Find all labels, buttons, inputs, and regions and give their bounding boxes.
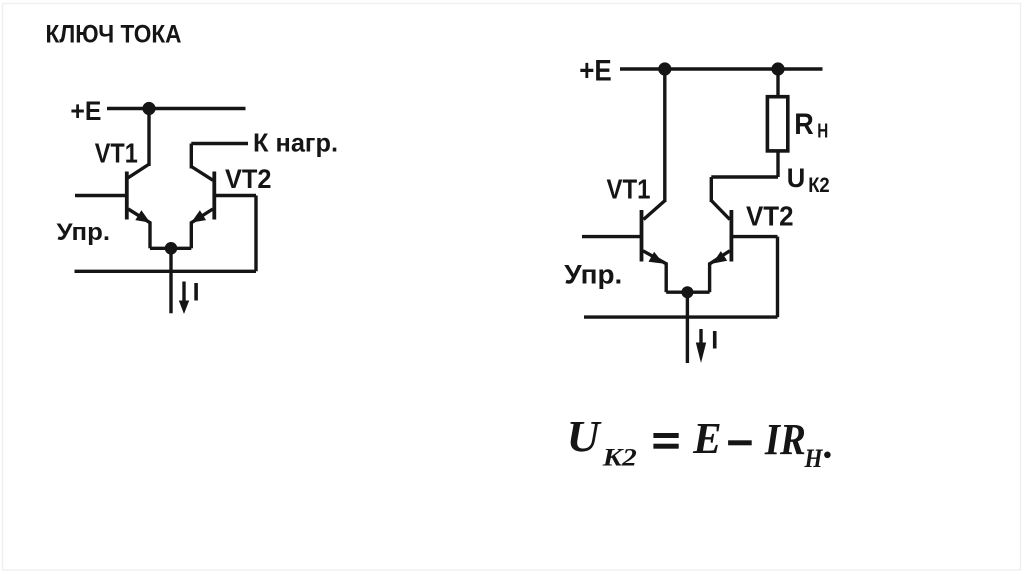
svg-text:I: I: [193, 278, 200, 306]
svg-text:Н: Н: [817, 119, 828, 142]
svg-text:+E: +E: [70, 96, 101, 126]
svg-text:Упр.: Упр.: [564, 259, 622, 289]
svg-text:VT2: VT2: [746, 200, 794, 231]
svg-text:К2: К2: [808, 173, 830, 197]
svg-text:H: H: [804, 444, 824, 473]
svg-text:I: I: [711, 327, 718, 355]
svg-text:IR: IR: [764, 415, 806, 464]
svg-text:E: E: [692, 414, 721, 463]
svg-text:U: U: [567, 412, 602, 461]
svg-text:VT1: VT1: [95, 137, 138, 168]
svg-text:Упр.: Упр.: [57, 219, 111, 246]
svg-text:R: R: [794, 108, 814, 141]
svg-text:К нагр.: К нагр.: [253, 127, 338, 157]
svg-text:+E: +E: [579, 55, 612, 88]
svg-text:K2: K2: [602, 445, 637, 472]
svg-text:VT1: VT1: [607, 174, 651, 205]
svg-text:VT2: VT2: [225, 164, 272, 194]
svg-text:КЛЮЧ ТОКА: КЛЮЧ ТОКА: [46, 20, 182, 48]
svg-text:U: U: [787, 163, 806, 193]
